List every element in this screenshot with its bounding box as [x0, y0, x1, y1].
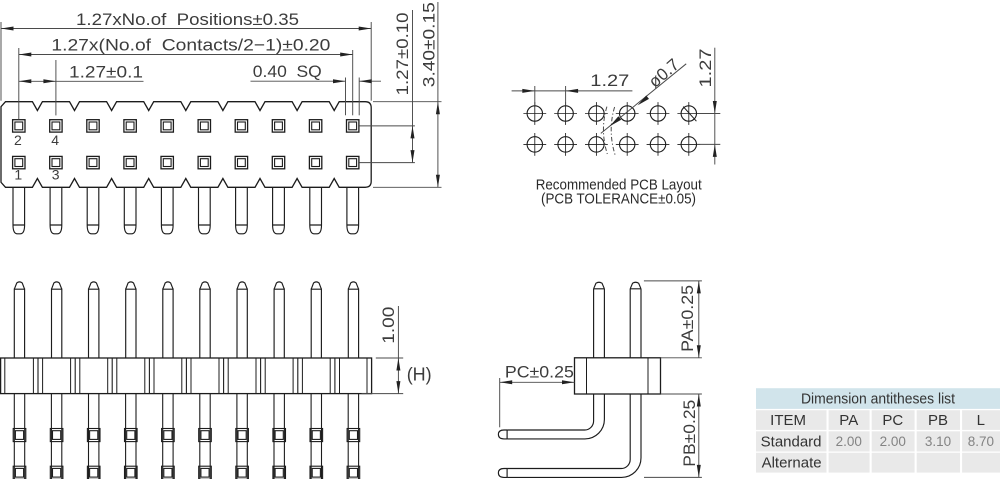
svg-text:1.27xNo.of Positions±0.35: 1.27xNo.of Positions±0.35 [76, 10, 299, 29]
svg-text:PA: PA [839, 412, 858, 429]
right-angle view: rear pin [498, 282, 641, 477]
svg-text:1.27x(No.of Contacts/2−1)±0.2: 1.27x(No.of Contacts/2−1)±0.20 [51, 36, 330, 55]
svg-text:8.70: 8.70 [968, 434, 994, 449]
svg-text:1.27: 1.27 [590, 71, 629, 90]
dimension: 1.27xNo.of Positions±0.35 [1, 10, 371, 101]
svg-text:Dimension antitheses list: Dimension antitheses list [801, 390, 956, 407]
svg-text:(H): (H) [407, 365, 432, 385]
slash mark on last hole [683, 107, 696, 122]
svg-text:2.00: 2.00 [880, 434, 906, 449]
svg-text:PA±0.25: PA±0.25 [678, 285, 697, 352]
svg-text:3.40±0.15: 3.40±0.15 [420, 2, 439, 87]
svg-text:1: 1 [14, 167, 22, 183]
dimension: PA±0.25 [644, 281, 702, 358]
svg-text:L: L [977, 412, 985, 429]
svg-text:1.00: 1.00 [379, 307, 398, 344]
svg-text:2.00: 2.00 [836, 434, 862, 449]
leader: ø0.7 hole diameter [601, 55, 686, 133]
svg-text:1.27±0.10: 1.27±0.10 [393, 12, 412, 95]
dashed mating arcs [603, 107, 615, 155]
right-angle view: front pin [498, 282, 604, 439]
svg-text:PB: PB [928, 412, 948, 429]
dimension: PB±0.25 [644, 394, 702, 477]
dimension: 1.27 hole pitch (horizontal) [512, 71, 633, 105]
svg-text:PB±0.25: PB±0.25 [680, 400, 699, 467]
right-angle view: insulator block [575, 358, 661, 394]
svg-text:3.10: 3.10 [925, 434, 951, 449]
contact squares (top view) [13, 120, 359, 169]
svg-text:2: 2 [14, 132, 22, 148]
svg-text:3: 3 [52, 167, 60, 183]
side view: insulator band [1, 358, 372, 394]
dimension: 0.40 SQ [251, 62, 382, 115]
dimension: 1.00 pin tip [379, 306, 398, 394]
dimension: PC±0.25 [500, 362, 575, 427]
side view: lower pins with square bosses [13, 394, 360, 479]
side view: upper pins [14, 282, 358, 358]
dimension: 1.27x(No.of Contacts/2-1)±0.20 [19, 36, 353, 120]
svg-text:(PCB TOLERANCE±0.05): (PCB TOLERANCE±0.05) [541, 191, 696, 208]
header body (top view) [1, 102, 371, 188]
svg-text:4: 4 [51, 132, 59, 148]
dimension: 1.27±0.1 [19, 60, 144, 115]
svg-text:Standard: Standard [761, 433, 822, 450]
bottom pins (top view) [13, 187, 359, 234]
dimension: 3.40±0.15 body width [373, 2, 442, 187]
svg-text:1.27: 1.27 [696, 49, 715, 88]
PCB layout holes [523, 102, 700, 156]
dimension: 1.27 row pitch (vertical) [696, 48, 721, 165]
dimension: 1.27±0.10 row pitch [359, 10, 415, 163]
dimension: (H) body height [362, 358, 432, 394]
svg-text:ITEM: ITEM [770, 412, 806, 429]
svg-text:PC: PC [882, 412, 903, 429]
svg-text:ø0.7: ø0.7 [645, 55, 683, 92]
svg-text:PC±0.25: PC±0.25 [505, 362, 574, 381]
svg-text:0.40 SQ: 0.40 SQ [253, 62, 322, 81]
svg-text:Alternate: Alternate [762, 455, 822, 472]
svg-text:1.27±0.1: 1.27±0.1 [69, 63, 143, 82]
pin number labels 1-4 [14, 132, 60, 183]
dimension table [756, 388, 1000, 472]
